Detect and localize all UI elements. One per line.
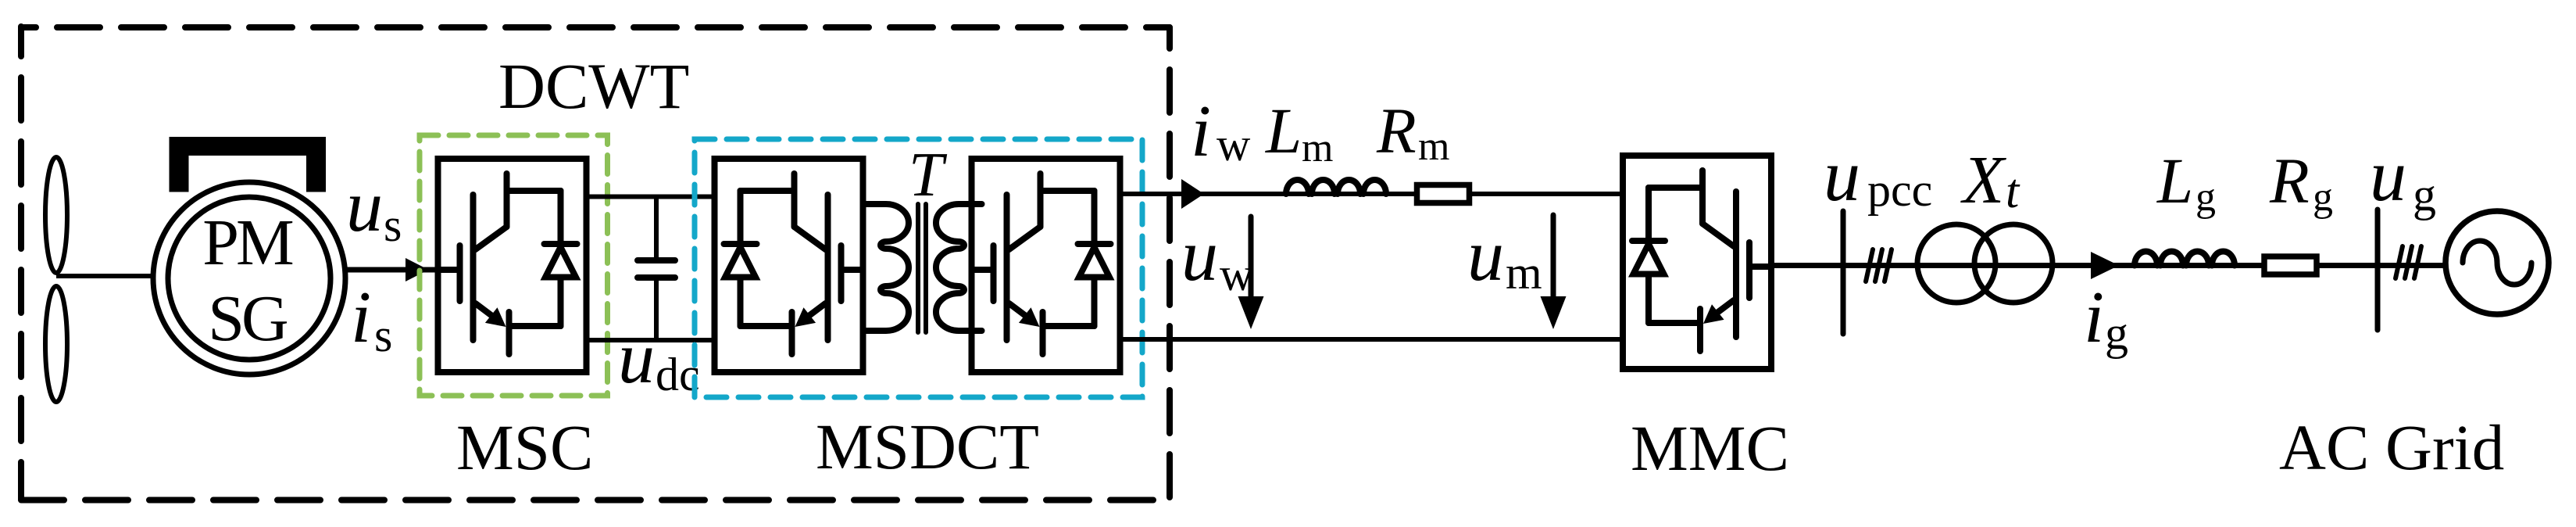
svg-text:i: i xyxy=(1191,91,1211,172)
svg-text:R: R xyxy=(1376,95,1417,167)
arrow u_w xyxy=(1249,217,1254,296)
converter MSDCT left cell (mirrored) xyxy=(715,159,863,372)
svg-text:m: m xyxy=(1418,124,1449,169)
transformer T secondary winding xyxy=(936,204,982,331)
svg-text:u: u xyxy=(618,317,655,399)
capacitor C_dc plates xyxy=(638,260,675,278)
svg-text:m: m xyxy=(1506,247,1542,299)
svg-text:w: w xyxy=(1217,119,1251,170)
resistor R_m xyxy=(1417,185,1470,203)
svg-text:L: L xyxy=(1265,95,1302,167)
svg-text:u: u xyxy=(1181,215,1218,296)
three-phase slashes at grid xyxy=(2396,246,2421,278)
svg-text:MMC: MMC xyxy=(1631,412,1789,484)
outer DCWT dashed box xyxy=(21,27,1170,500)
svg-text:g: g xyxy=(2313,175,2333,220)
converter MSC xyxy=(438,159,587,372)
svg-text:g: g xyxy=(2413,169,2436,220)
svg-text:g: g xyxy=(2105,307,2128,359)
svg-text:i: i xyxy=(2084,277,2104,358)
svg-text:u: u xyxy=(1824,135,1860,217)
DC link top wire xyxy=(587,195,715,199)
converter MSDCT right cell xyxy=(972,159,1120,372)
svg-text:L: L xyxy=(2156,145,2193,217)
svg-text:MSDCT: MSDCT xyxy=(816,410,1039,482)
AC source sine wave xyxy=(2463,241,2531,285)
resistor R_g xyxy=(2264,256,2317,274)
turbine shaft wire xyxy=(56,274,180,278)
svg-text:X: X xyxy=(1960,142,2006,217)
arrow u_m xyxy=(1551,215,1556,296)
PMSG outer circle xyxy=(153,182,345,375)
transformer X_t circle right xyxy=(1974,224,2053,303)
svg-text:pcc: pcc xyxy=(1867,164,1932,216)
arrow into MSC xyxy=(406,258,429,281)
svg-text:m: m xyxy=(1302,126,1333,170)
wind turbine blade lower xyxy=(45,286,67,402)
svg-text:MSC: MSC xyxy=(456,411,593,483)
wire MSDCT to MMC top xyxy=(1120,192,1624,196)
transformer T core xyxy=(918,204,926,332)
inductor L_m xyxy=(1286,180,1386,194)
wire MMC to AC grid xyxy=(1771,263,2446,268)
generator mount bracket xyxy=(170,137,327,192)
green dashed MSC box xyxy=(420,135,608,396)
AC grid source circle xyxy=(2446,211,2549,314)
three-phase slashes at PCC xyxy=(1866,249,1892,281)
svg-text:i: i xyxy=(351,277,371,358)
svg-text:g: g xyxy=(2195,175,2216,220)
arrow i_w xyxy=(1181,179,1204,209)
wind turbine blade upper xyxy=(45,157,67,273)
bus bar u_g xyxy=(2375,210,2381,330)
svg-text:SG: SG xyxy=(208,282,288,355)
blue dashed MSDCT box xyxy=(695,139,1142,397)
transformer X_t circle left xyxy=(1917,224,1995,303)
svg-text:u: u xyxy=(1467,215,1504,296)
inductor L_g xyxy=(2135,252,2235,266)
svg-text:AC Grid: AC Grid xyxy=(2279,411,2504,483)
arrow i_g xyxy=(2091,252,2119,279)
wire MSDCT to MMC bottom xyxy=(1120,337,1624,342)
svg-text:u: u xyxy=(2370,135,2406,217)
converter MMC (mirrored) xyxy=(1623,156,1771,369)
capacitor C_dc bottom lead xyxy=(654,278,659,340)
svg-text:s: s xyxy=(384,199,402,251)
PMSG inner circle xyxy=(168,197,330,360)
capacitor C_dc top lead xyxy=(654,197,659,261)
svg-text:T: T xyxy=(909,141,948,210)
transformer T primary winding xyxy=(863,204,909,331)
bus bar u_pcc xyxy=(1841,211,1846,334)
stator wire PMSG to MSC xyxy=(345,267,438,273)
DC link bottom wire xyxy=(587,338,715,342)
svg-text:w: w xyxy=(1220,249,1254,300)
svg-text:DCWT: DCWT xyxy=(498,50,689,122)
svg-text:t: t xyxy=(2006,165,2020,218)
svg-text:s: s xyxy=(374,310,392,361)
svg-text:PM: PM xyxy=(202,206,293,279)
svg-text:u: u xyxy=(346,166,383,247)
svg-text:R: R xyxy=(2269,145,2310,217)
